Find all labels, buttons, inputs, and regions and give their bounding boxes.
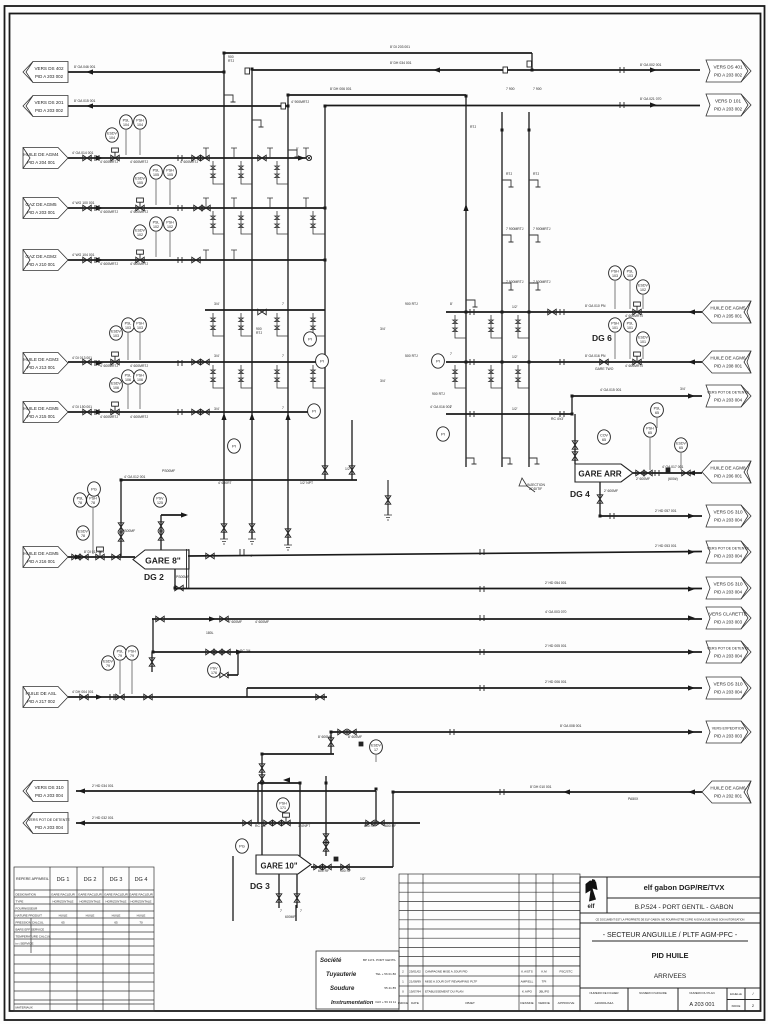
svg-text:106: 106: [113, 386, 119, 390]
pig box 668,470: [666, 468, 671, 473]
svg-text:PID A 203 002: PID A 203 002: [714, 73, 743, 78]
valve 84,697: [80, 694, 88, 700]
fitting bracket 529,235: [529, 235, 541, 242]
fitting bracket 502,180: [502, 180, 514, 187]
arrow 85,823: [78, 820, 85, 825]
flange pair 620,105: [620, 102, 624, 108]
svg-text:VERS D 101: VERS D 101: [715, 99, 741, 104]
valve 148,697: [144, 694, 152, 700]
svg-text:106: 106: [125, 378, 131, 382]
valve 262,312: [258, 309, 266, 315]
valve actuated 115,362: [111, 352, 119, 365]
vent stub 270,158: [267, 148, 273, 158]
instrument lead 615,281: [614, 281, 616, 309]
svg-text:GARE RACLEUR: GARE RACLEUR: [78, 893, 103, 897]
wire 8-DI-203 top header: [224, 52, 532, 54]
pig box 361,744: [359, 742, 364, 747]
svg-text:AMP/ELL: AMP/ELL: [521, 980, 534, 984]
fitting foot 529,458: [529, 458, 540, 464]
arrow 96,208: [96, 205, 103, 210]
arrow 75,557: [75, 554, 82, 559]
wire ladder drop 277,208: [275, 211, 288, 234]
instrument PI: [228, 439, 241, 453]
svg-text:65: 65: [655, 411, 659, 415]
svg-text:8' GA 016 PN: 8' GA 016 PN: [585, 354, 606, 358]
arrow 209,619: [209, 616, 216, 621]
junction 262,783: [261, 782, 264, 785]
svg-text:CAMPAGNE MISE A JOUR PID: CAMPAGNE MISE A JOUR PID: [425, 970, 468, 974]
svg-text:PSC/STC: PSC/STC: [559, 970, 573, 974]
svg-text:PID A 203 002: PID A 203 002: [35, 74, 64, 79]
valve actuated 100,557: [96, 547, 104, 560]
svg-text:4' GA 003 070: 4' GA 003 070: [545, 610, 566, 614]
svg-text:79: 79: [106, 664, 110, 668]
drop GARE ARR drain: [599, 482, 601, 516]
svg-text:900 RTJ: 900 RTJ: [405, 302, 418, 306]
svg-text:K.A/PO: K.A/PO: [522, 990, 533, 994]
valve 205,158: [201, 155, 209, 161]
societe tuyauterie box: [316, 951, 399, 1009]
wire ladder drop 213,208: [211, 211, 224, 234]
svg-text:102: 102: [167, 225, 173, 229]
svg-text:GARE 10": GARE 10": [260, 862, 297, 871]
junction 466,312: [465, 311, 468, 314]
fitting bracket 252,120: [252, 120, 264, 127]
svg-text:4' 900MRTJ: 4' 900MRTJ: [291, 100, 309, 104]
svg-text:103: 103: [612, 274, 618, 278]
valve 686,473: [682, 470, 690, 476]
svg-text:PID A 203 004: PID A 203 004: [35, 825, 64, 830]
svg-text:4' WG 104 001: 4' WG 104 001: [72, 253, 95, 257]
svg-text:A 203 001: A 203 001: [689, 1002, 714, 1008]
valve vertical 388,500: [385, 496, 391, 504]
svg-text:101: 101: [627, 326, 633, 330]
svg-text:3/4': 3/4': [380, 327, 386, 331]
svg-text:4' 600MRTJ: 4' 600MRTJ: [100, 415, 118, 419]
node flag HUILE DE AGM6 PID A 208 001 right: [702, 351, 751, 373]
junction 238,652: [237, 651, 240, 654]
vent stub 234,260: [231, 250, 237, 260]
drop gare8 inlet: [120, 481, 122, 556]
flange pair 480,589: [480, 586, 484, 592]
node flag HUILE DE AGM5 PID A 215 001 left: [23, 402, 68, 423]
svg-text:PS00MF: PS00MF: [176, 575, 189, 579]
svg-text:DG 1: DG 1: [57, 877, 70, 883]
instrument lead 170,232: [169, 232, 171, 257]
wire 8-DH header: [288, 94, 466, 96]
instrument ESDV 101: [637, 332, 650, 346]
valve actuated 637,312: [633, 302, 641, 315]
svg-text:PG: PG: [239, 844, 245, 849]
valve 318,867: [314, 864, 322, 870]
riser main 1: [223, 53, 225, 539]
arrow 96,158: [96, 155, 103, 160]
flange pair 178,158: [178, 155, 182, 161]
svg-text:101: 101: [640, 340, 646, 344]
wire ladder drop 213,158: [211, 161, 224, 184]
svg-text:8' DI 012 001: 8' DI 012 001: [84, 550, 104, 554]
svg-text:1/4'NPT: 1/4'NPT: [298, 824, 310, 828]
wire VERS POT DE DETENTE 1: [572, 395, 702, 397]
wire ladder drop 313,208: [311, 211, 325, 234]
arrow 96,697: [96, 694, 103, 699]
wire VERS POT DE DETENTE outlet: [188, 552, 702, 557]
junction 300,783: [299, 782, 302, 785]
instrument PSL 105: [150, 165, 163, 179]
junction 502,312: [501, 311, 504, 314]
junction 529,312: [528, 311, 531, 314]
instrument lead 643,347: [642, 347, 644, 359]
wire ladder drop 518,312: [516, 315, 529, 338]
riser main 3: [287, 95, 289, 545]
valve 84,557: [80, 554, 88, 560]
node flag VERS POT DE DETENTE PID A 203 004 right: [706, 541, 751, 563]
valve 196,362: [192, 359, 200, 365]
instrument lead 140,385: [139, 385, 141, 409]
valve 76,557: [72, 554, 80, 560]
valve actuated 115,412: [111, 402, 119, 415]
instrument PSL 65: [651, 403, 664, 417]
riser main 4: [324, 106, 326, 480]
svg-text:HUILE: HUILE: [59, 914, 68, 918]
ground foot 224,539: [220, 539, 228, 544]
svg-text:GARE RACLEUR: GARE RACLEUR: [129, 893, 154, 897]
svg-text:HUILE DE AGM5: HUILE DE AGM5: [710, 306, 746, 311]
elf logo: [586, 880, 598, 910]
svg-text:HUILE DE AGM3: HUILE DE AGM3: [23, 357, 59, 362]
svg-text:PID A 203 003: PID A 203 003: [714, 734, 743, 739]
drop gare10 vent: [325, 776, 327, 856]
vent stub 234,158: [231, 148, 237, 158]
valve 370,823: [366, 820, 374, 826]
svg-text:HUILE: HUILE: [137, 914, 146, 918]
svg-text:(600#): (600#): [668, 477, 678, 481]
junction 376,789: [375, 788, 378, 791]
valve vertical 279,898: [276, 894, 282, 902]
inlet GARE ARR: [574, 414, 576, 464]
vent stub 270,208: [267, 198, 273, 208]
wire manifold row C right: [446, 413, 572, 415]
svg-text:1/2': 1/2': [512, 305, 518, 309]
valve 87,208: [83, 205, 91, 211]
node flag GAZ DE AGM2 PID A 210 001 left: [23, 250, 68, 271]
svg-text:1/2': 1/2': [512, 407, 518, 411]
node flag HUILE DE ASL PID A 217 002 left: [23, 687, 68, 708]
riser right 2: [501, 112, 503, 467]
svg-text:7 900MRTJ: 7 900MRTJ: [533, 227, 551, 231]
instrument lead 657,418: [656, 418, 658, 428]
valve vertical 352,470: [349, 466, 355, 474]
svg-text:RTJ: RTJ: [228, 59, 234, 63]
svg-text:VERS DS 401: VERS DS 401: [713, 65, 743, 70]
arrow 181,515: [181, 512, 188, 517]
instrument ESDV 104: [106, 128, 119, 142]
svg-text:2' HD 032 001: 2' HD 032 001: [92, 816, 114, 820]
arrow 290,780: [283, 777, 290, 782]
svg-text:4' GA 016 001: 4' GA 016 001: [430, 405, 451, 409]
svg-text:4' 600MRTJ: 4' 600MRTJ: [130, 210, 148, 214]
valve 210,652: [206, 649, 214, 655]
flange pair 480,652: [480, 649, 484, 655]
svg-text:2' HD 006 001: 2' HD 006 001: [545, 680, 567, 684]
valve vertical 252,528: [249, 524, 255, 532]
spec table DG1-DG4: [14, 867, 154, 1011]
svg-text:7: 7: [282, 302, 284, 306]
svg-text:79: 79: [130, 654, 134, 658]
svg-text:PA50X: PA50X: [628, 797, 639, 801]
valve 277,823: [273, 820, 281, 826]
valve 380,823: [376, 820, 384, 826]
svg-text:4' 600MRTJ: 4' 600MRTJ: [130, 160, 148, 164]
wire to VERS DS 401: [252, 69, 700, 71]
instrument ESDV 78: [77, 526, 90, 540]
svg-text:104: 104: [109, 136, 115, 140]
svg-text:8' 600MF: 8' 600MF: [348, 735, 362, 739]
svg-text:HORIZONTALE: HORIZONTALE: [105, 900, 126, 904]
arrow 650,70: [650, 67, 657, 72]
valve vertical 575,456: [572, 452, 578, 460]
svg-text:TPI: TPI: [542, 980, 547, 984]
svg-text:4' 600MRTJ: 4' 600MRTJ: [130, 262, 148, 266]
wire psv loop: [227, 674, 238, 676]
valve 648,473: [644, 470, 652, 476]
wire VERS DS 310 dg3: [76, 790, 376, 792]
instrument ESDV 65: [675, 438, 688, 452]
flange pair 178,412: [178, 409, 182, 415]
wire gare10 inner: [258, 782, 300, 784]
valve 320,697: [316, 694, 324, 700]
svg-text:1/2' NPT: 1/2' NPT: [300, 481, 313, 485]
instrument ESDV 102: [637, 280, 650, 294]
flange pair 110,697: [110, 694, 114, 700]
node flag HUILE DE AGM4 PID A 204 001 left: [23, 148, 68, 169]
instrument PSL 78: [74, 493, 87, 507]
svg-text:PRESSION CALCUL: PRESSION CALCUL: [16, 921, 45, 925]
dg3 drain b: [296, 874, 298, 908]
arrow 688,618: [688, 615, 695, 620]
valve vertical 121,527: [118, 523, 124, 531]
svg-text:8' DH 010 001: 8' DH 010 001: [530, 785, 552, 789]
svg-text:8' DH 034 001: 8' DH 034 001: [390, 61, 412, 65]
valve actuated 140,208: [136, 198, 144, 211]
fitting bracket 224,95: [224, 95, 236, 102]
svg-text:7 900: 7 900: [506, 87, 515, 91]
svg-text:B.P.524 - PORT GENTIL - GA: B.P.524 - PORT GENTIL - GABON: [635, 904, 734, 911]
svg-text:PID A 203 004: PID A 203 004: [714, 590, 743, 595]
corner 8-DI-203: [531, 53, 533, 70]
svg-text:105: 105: [137, 181, 143, 185]
svg-text:600 RF: 600 RF: [364, 824, 375, 828]
svg-text:FOURNISSEUR: FOURNISSEUR: [16, 907, 39, 911]
wire ladder drop 241,362: [239, 365, 252, 388]
flange pair 95,208: [95, 205, 99, 211]
svg-text:4' GA 012 001: 4' GA 012 001: [124, 475, 145, 479]
node gare8 box edge: [186, 549, 188, 588]
arrow 695,473: [688, 470, 695, 475]
svg-text:APPROUVE: APPROUVE: [558, 1001, 575, 1005]
svg-text:79: 79: [118, 654, 122, 658]
node GARE ARR banner DG4: [575, 464, 633, 482]
svg-text:4' DI 150 001: 4' DI 150 001: [72, 405, 92, 409]
svg-text:70: 70: [139, 921, 143, 925]
svg-text:4' 600MRTJ: 4' 600MRTJ: [100, 160, 118, 164]
flange pair 480,688: [480, 685, 484, 691]
svg-text:MATERIAUX: MATERIAUX: [16, 1006, 33, 1010]
fitting flange 283,106: [281, 103, 286, 109]
node flag HUILE DE AGM8 PID A 206 001 right: [702, 461, 751, 483]
svg-text:TYPE: TYPE: [16, 900, 24, 904]
svg-text:7 900: 7 900: [533, 87, 542, 91]
valve vertical 262,768: [259, 764, 265, 772]
svg-text:2' 600MF: 2' 600MF: [636, 477, 650, 481]
svg-text:103: 103: [125, 326, 131, 330]
vent stub 306,158: [303, 148, 309, 158]
svg-text:55 41 85: 55 41 85: [384, 986, 396, 990]
svg-text:GAZ DE AGM2: GAZ DE AGM2: [25, 254, 57, 259]
svg-text:DG 3: DG 3: [110, 877, 123, 883]
node flag HUILE DE AGM3 PID A 213 001 left: [23, 353, 68, 374]
svg-text:GARE ARR: GARE ARR: [578, 470, 621, 479]
svg-text:4' 600RT: 4' 600RT: [218, 481, 232, 485]
svg-text:VERS POT DE DETENTE: VERS POT DE DETENTE: [707, 547, 749, 551]
svg-text:DG 2: DG 2: [84, 877, 97, 883]
drop ds310 dg3: [375, 791, 377, 823]
svg-text:K.M: K.M: [541, 970, 547, 974]
drop psh171: [257, 783, 259, 823]
valve 87,158: [83, 155, 91, 161]
svg-text:TEMPERATURE CALCUL: TEMPERATURE CALCUL: [16, 935, 51, 939]
svg-text:103: 103: [137, 326, 143, 330]
svg-text:104: 104: [123, 123, 129, 127]
svg-text:PID A 203 004: PID A 203 004: [714, 398, 743, 403]
node flag HUILE DE AGM6 PID A 202 001 right: [702, 781, 751, 803]
svg-text:VERS DS 402: VERS DS 402: [34, 66, 64, 71]
svg-text:500 RTJ: 500 RTJ: [405, 354, 418, 358]
valve 120,697: [116, 694, 124, 700]
svg-text:7: 7: [450, 405, 452, 409]
svg-text:TEL + 56 01 80: TEL + 56 01 80: [376, 972, 397, 976]
valve 268,823: [264, 820, 272, 826]
svg-text:106: 106: [137, 378, 143, 382]
svg-text:101: 101: [612, 326, 618, 330]
svg-text:VERS DS 201: VERS DS 201: [34, 100, 64, 105]
svg-text:RC 3/4: RC 3/4: [240, 649, 251, 653]
wire VERS DS 402: [68, 71, 224, 73]
instrument lead 128,333: [127, 333, 129, 360]
svg-text:BARS EFF SERVICE: BARS EFF SERVICE: [16, 928, 45, 932]
svg-text:900 RF: 900 RF: [340, 869, 351, 873]
svg-text:PID A 206 001: PID A 206 001: [714, 474, 743, 479]
svg-text:MISE A JOUR DVT REVAMPING PLTF: MISE A JOUR DVT REVAMPING PLTF: [425, 980, 477, 984]
svg-text:1/2': 1/2': [345, 467, 351, 471]
svg-text:NUMERO DU PLAN: NUMERO DU PLAN: [689, 991, 714, 995]
junction 572,396: [571, 395, 574, 398]
arrow 93,72: [86, 69, 93, 74]
wire gare10 top loop: [262, 753, 334, 755]
corner POT DETENTE: [571, 396, 573, 414]
svg-text:7: 7: [282, 406, 284, 410]
flange pair 470,312: [470, 309, 474, 315]
svg-text:3/4': 3/4': [214, 407, 220, 411]
wire ladder drop 277,362: [275, 365, 288, 388]
flange pair 178,260: [178, 257, 182, 263]
svg-text:8' 600MF: 8' 600MF: [318, 735, 332, 739]
drop gare10 left: [261, 754, 263, 856]
wire ladder drop 241,158: [239, 161, 252, 184]
valve 210,556: [206, 553, 214, 559]
svg-text:INDICE: INDICE: [732, 1004, 741, 1008]
svg-text:HUILE DE AGM8: HUILE DE AGM8: [710, 466, 746, 471]
svg-text:PID A 205 001: PID A 205 001: [714, 314, 743, 319]
svg-text:PID A 213 001: PID A 213 001: [27, 365, 56, 370]
svg-text:4' 600MRTJ: 4' 600MRTJ: [100, 210, 118, 214]
arrow 688,396: [688, 393, 695, 398]
svg-text:HUILE DE AGM6: HUILE DE AGM6: [710, 786, 746, 791]
wire ladder drop 313,310: [311, 313, 325, 336]
node flag VERS DS 401 PID A 203 002 right: [706, 60, 751, 82]
wire GAZ DE AGM5: [68, 207, 325, 209]
svg-text:HORIZONTALE: HORIZONTALE: [52, 900, 73, 904]
wire ladder drop 213,362: [211, 365, 224, 388]
svg-text:8' DI 203 001: 8' DI 203 001: [390, 45, 410, 49]
wire ladder drop 313,362: [311, 365, 325, 388]
junction 532,70: [531, 69, 534, 72]
svg-text:7: 7: [300, 909, 302, 913]
revision table: [399, 874, 580, 1011]
svg-text:7: 7: [450, 352, 452, 356]
instrument PSH 102: [164, 217, 177, 231]
svg-text:PID A 204 001: PID A 204 001: [27, 160, 56, 165]
valve 196,412: [192, 409, 200, 415]
vent stub 234,208: [231, 198, 237, 208]
valve actuated 115,158: [111, 148, 119, 161]
valve 205,412: [201, 409, 209, 415]
flange pair 480,618: [480, 615, 484, 621]
instrument PSH 171: [277, 798, 290, 812]
wire to VERS D 101: [325, 105, 700, 107]
svg-text:OBJET: OBJET: [465, 1001, 475, 1005]
svg-text:RTJ: RTJ: [506, 172, 512, 176]
flange pair 620,70: [620, 67, 624, 73]
valve actuated 140,260: [136, 250, 144, 263]
junction 288,95: [287, 94, 290, 97]
instrument PSH 78: [87, 493, 100, 507]
flange pair 240,552: [240, 549, 244, 555]
instrument ESDV 105: [134, 173, 147, 187]
svg-text:7: 7: [280, 909, 282, 913]
valve 179,588: [175, 585, 183, 591]
flange pair 95,412: [95, 409, 99, 415]
svg-text:HUILE: HUILE: [86, 914, 95, 918]
valve 206,208: [202, 205, 210, 211]
svg-text:8' GA 002 001: 8' GA 002 001: [640, 63, 661, 67]
wire ladder drop 277,310: [275, 313, 288, 336]
svg-text:PI: PI: [441, 432, 445, 437]
svg-text:4' 600MRTJ: 4' 600MRTJ: [100, 364, 118, 368]
svg-text:21/08/99: 21/08/99: [409, 980, 421, 984]
valve 342,732: [338, 729, 346, 735]
junction 325,208: [324, 207, 327, 210]
valve 224,619: [220, 616, 228, 622]
wire HUILE DE AGM6: [446, 361, 702, 363]
svg-text:PG: PG: [91, 487, 97, 492]
svg-text:1/2': 1/2': [512, 355, 518, 359]
svg-text:DESSINE: DESSINE: [520, 1001, 533, 1005]
svg-text:PI: PI: [232, 444, 236, 449]
valve vertical 297,898: [294, 894, 300, 902]
riser right 1: [465, 96, 467, 467]
valve vertical 288,533: [285, 529, 291, 537]
